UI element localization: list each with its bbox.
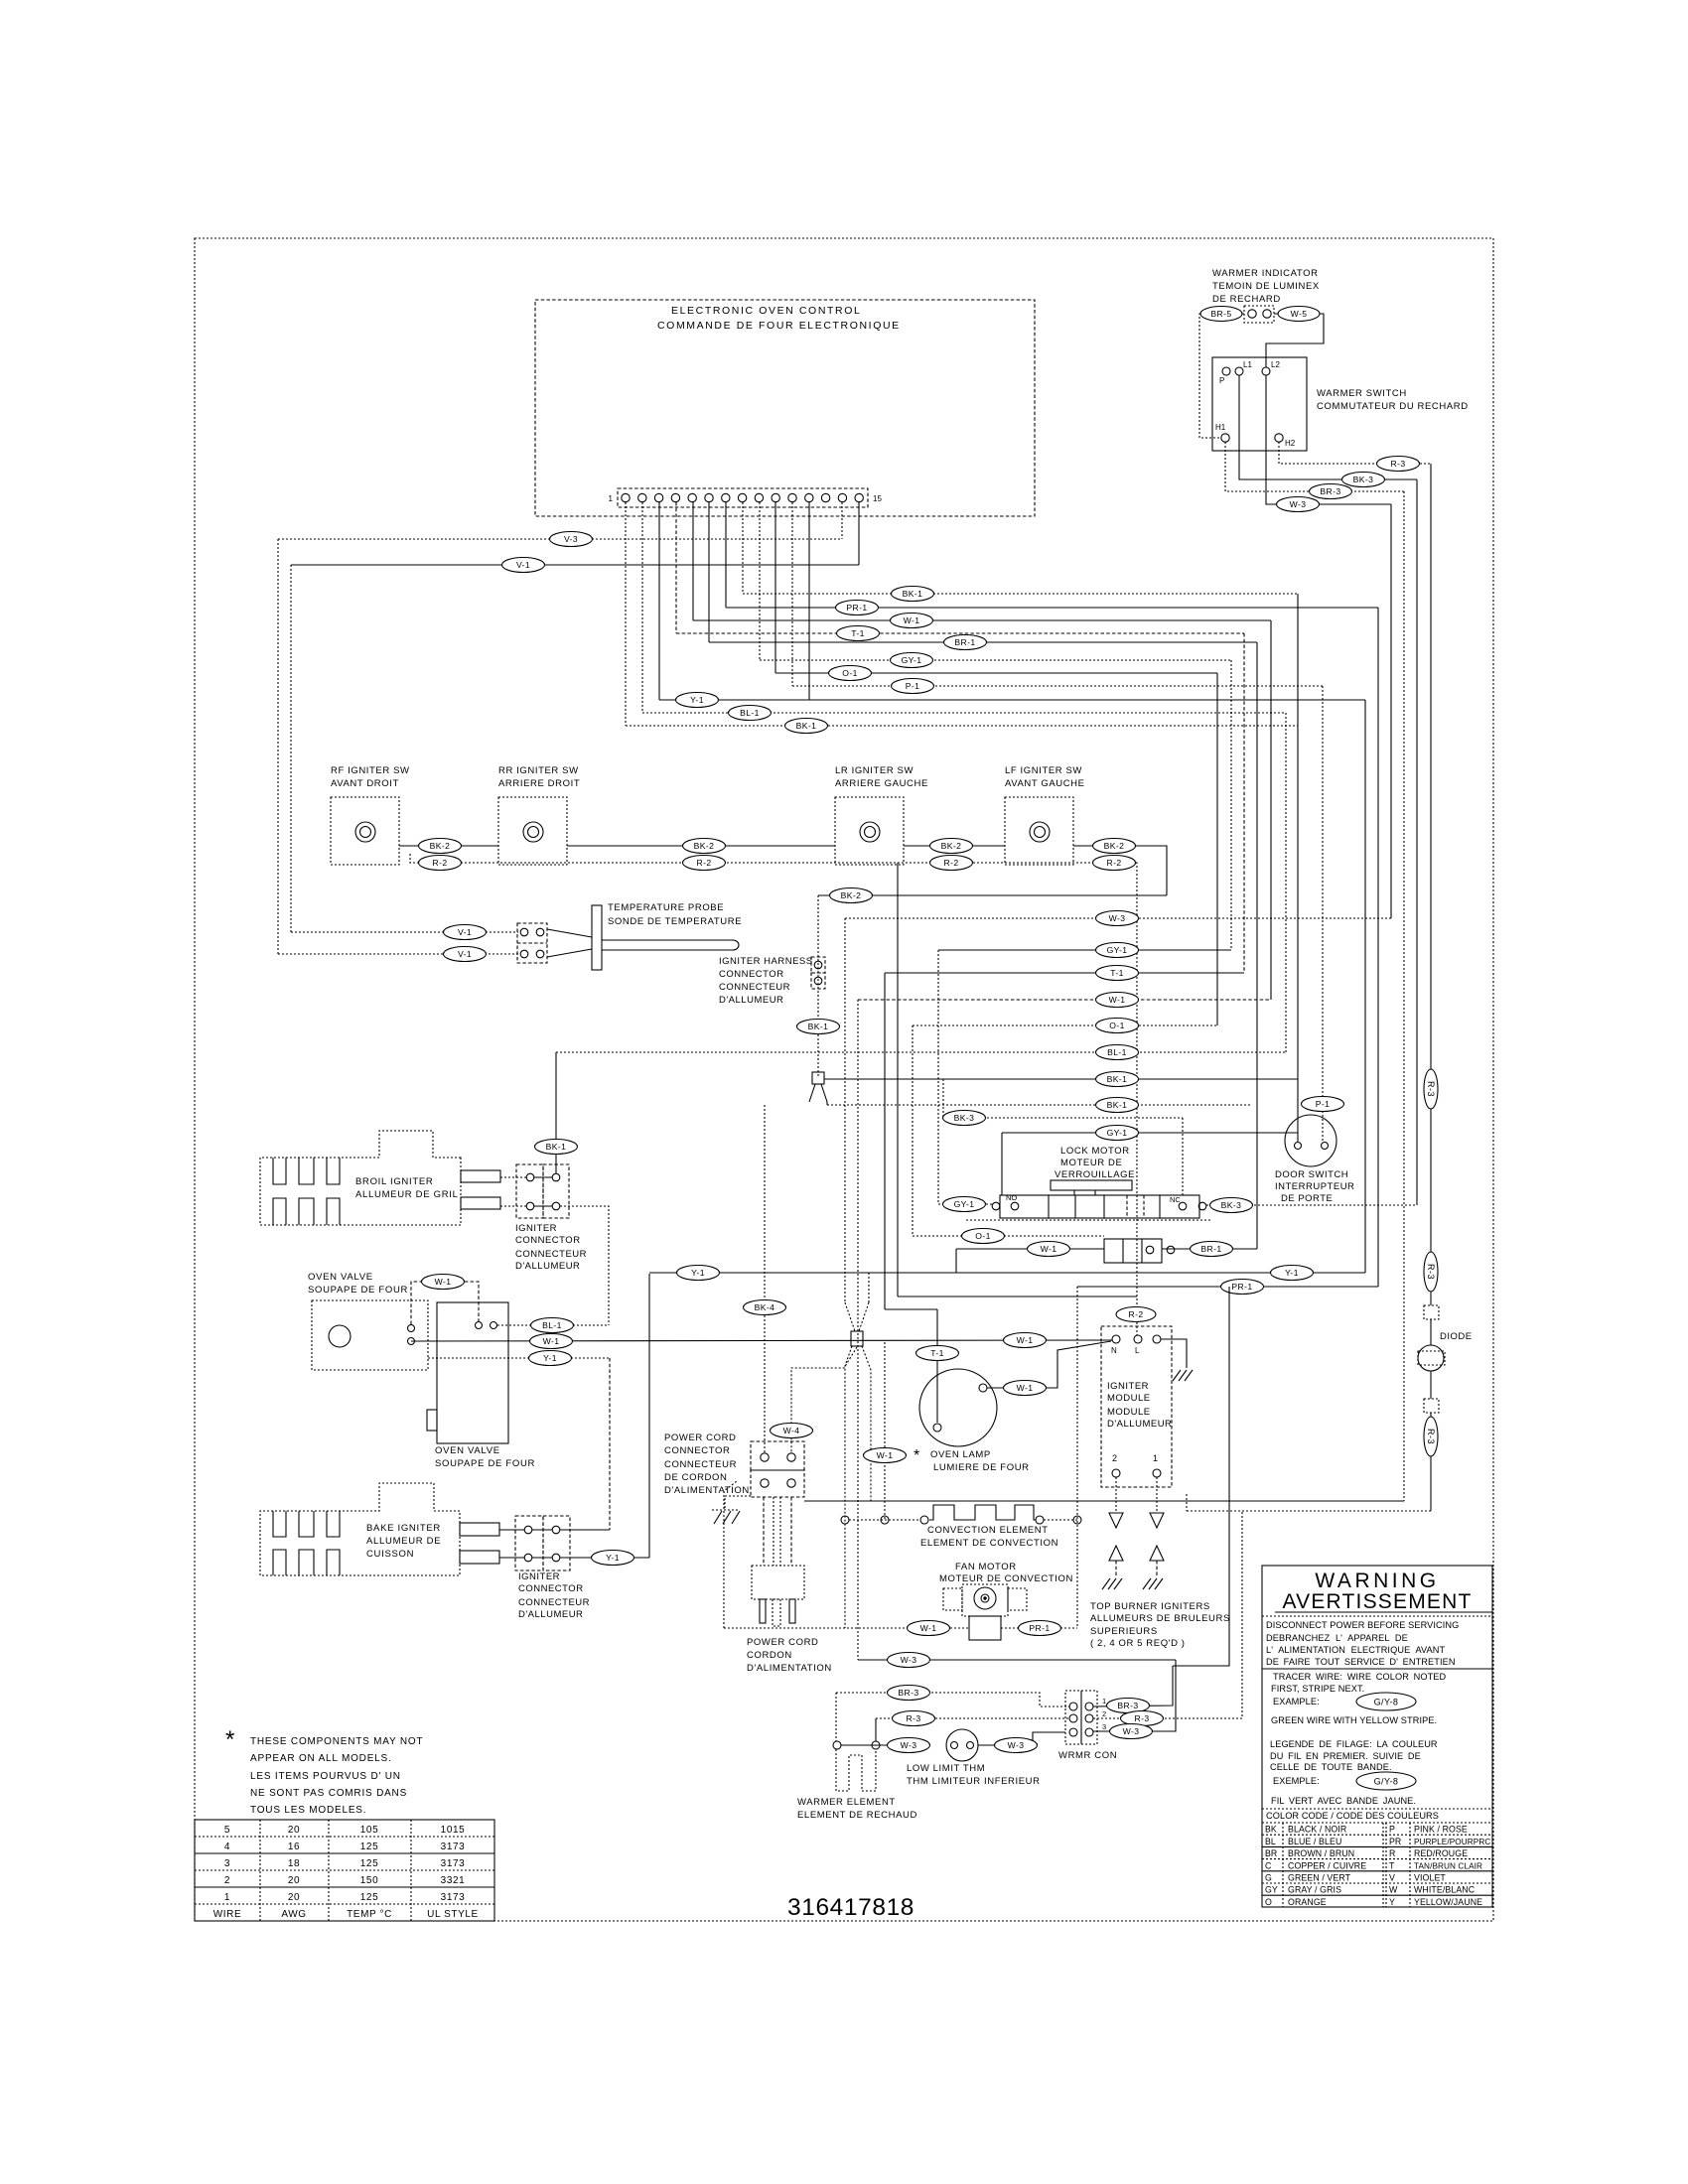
svg-text:D'ALLUMEUR: D'ALLUMEUR	[1107, 1419, 1172, 1430]
svg-text:D'ALLUMEUR: D'ALLUMEUR	[518, 1609, 583, 1620]
svg-text:G: G	[1265, 1873, 1272, 1883]
svg-text:CORDON: CORDON	[747, 1650, 792, 1661]
oval R-3 vertical upper	[1424, 1252, 1438, 1292]
svg-text:COPPER / CUIVRE: COPPER / CUIVRE	[1288, 1860, 1366, 1870]
wire Y-1 from terminal	[659, 502, 1365, 708]
bake igniter tooth upper 2	[299, 1511, 314, 1537]
svg-text:CONNECTEUR: CONNECTEUR	[719, 982, 790, 993]
module pin 1	[1153, 1453, 1161, 1477]
oven valve label lower	[435, 1445, 535, 1469]
svg-text:3: 3	[1102, 1722, 1106, 1731]
svg-text:3: 3	[224, 1858, 230, 1869]
svg-text:16: 16	[288, 1842, 300, 1852]
svg-text:ORANGE: ORANGE	[1288, 1897, 1327, 1907]
svg-text:105: 105	[360, 1825, 379, 1836]
svg-text:L2: L2	[1271, 360, 1280, 369]
svg-text:RF IGNITER SW: RF IGNITER SW	[331, 765, 410, 776]
igniter harness connector	[811, 957, 825, 989]
svg-text:SUPERIEURS: SUPERIEURS	[1090, 1626, 1158, 1637]
svg-text:POWER CORD: POWER CORD	[664, 1433, 737, 1443]
svg-text:D'ALIMENTATION: D'ALIMENTATION	[664, 1485, 750, 1496]
svg-text:DU FIL EN PREMIER. SUIVIE: DU FIL EN PREMIER. SUIVIE DE	[1270, 1751, 1421, 1761]
wire BR-3 stub	[835, 1693, 837, 1741]
svg-text:TEMPERATURE PROBE: TEMPERATURE PROBE	[608, 902, 724, 913]
svg-text:*: *	[225, 1726, 234, 1753]
bake igniter label	[366, 1523, 441, 1560]
svg-text:W-1: W-1	[1017, 1335, 1034, 1345]
wire Y-1 riser	[648, 1274, 650, 1558]
wire R-3 right drop	[1424, 464, 1438, 1252]
asterisk note	[225, 1726, 423, 1816]
svg-text:3173: 3173	[441, 1842, 466, 1852]
junction square upper	[809, 1072, 827, 1105]
svg-text:W-5: W-5	[1291, 309, 1308, 319]
wire GY-1 drop	[937, 950, 939, 1204]
svg-text:BK-2: BK-2	[941, 841, 962, 851]
svg-text:PR-1: PR-1	[846, 603, 867, 613]
wire PR-1 long row	[1077, 1280, 1378, 1295]
wire module ground dotted	[1186, 1494, 1188, 1511]
wire O-1 lock motor row	[913, 1229, 1104, 1244]
wire GY-1 mid row y957	[938, 943, 1231, 958]
wire O-1 drop	[912, 1025, 914, 1236]
svg-text:L: L	[1135, 1346, 1140, 1355]
svg-text:G/Y-8: G/Y-8	[1374, 1777, 1399, 1787]
broil igniter tooth lower 1	[273, 1198, 286, 1225]
pin 3 label	[1102, 1722, 1106, 1731]
wire R-3 bottom left	[876, 1711, 1069, 1726]
svg-text:UL STYLE: UL STYLE	[427, 1909, 479, 1920]
svg-text:DE PORTE: DE PORTE	[1281, 1193, 1333, 1204]
bake igniter prong lower	[460, 1551, 524, 1564]
svg-text:N: N	[1111, 1346, 1117, 1355]
igniter connector bake label	[518, 1571, 590, 1620]
wire O-1 from terminal	[775, 502, 1217, 681]
svg-text:LES ITEMS POURVUS D' UN: LES ITEMS POURVUS D' UN	[250, 1771, 401, 1782]
wire BR-1 from terminal	[709, 502, 1257, 650]
igniter connector broil	[516, 1164, 569, 1218]
svg-text:O: O	[1265, 1897, 1272, 1907]
wire W-3 right	[1093, 1660, 1176, 1739]
wire BK-3 lock motor row	[1206, 1198, 1417, 1213]
wire Y-1 long row	[649, 1266, 1365, 1281]
svg-text:LEGENDE DE FILAGE: LA COULEUR: LEGENDE DE FILAGE: LA COULEUR	[1270, 1739, 1438, 1749]
wire fan W-1 left riser	[724, 1481, 737, 1628]
svg-text:20: 20	[288, 1875, 300, 1886]
wire BR-3 right	[1093, 1666, 1173, 1713]
svg-text:2: 2	[1112, 1453, 1117, 1463]
svg-text:WARMER ELEMENT: WARMER ELEMENT	[797, 1797, 896, 1808]
wire V-3	[278, 502, 842, 547]
wire BR-3 from H1	[1225, 442, 1404, 499]
wire BK-1 from terminal	[743, 502, 1298, 602]
wire W-3 from L2	[1266, 375, 1391, 512]
svg-text:BK-1: BK-1	[1107, 1100, 1128, 1110]
warmer indicator label	[1212, 268, 1320, 305]
svg-text:WARMER INDICATOR: WARMER INDICATOR	[1212, 268, 1319, 279]
svg-text:BR-5: BR-5	[1210, 309, 1231, 319]
example oval 1	[1273, 1693, 1416, 1710]
svg-text:H1: H1	[1215, 423, 1226, 432]
warmer element label	[797, 1797, 917, 1821]
wire T-1 drop	[1243, 633, 1245, 973]
svg-text:PR: PR	[1389, 1837, 1401, 1846]
wire BR-5 to H1	[1199, 314, 1244, 438]
wire T-1 to lamp	[885, 1309, 959, 1423]
wire R-3 diode bottom	[1187, 1456, 1431, 1511]
svg-text:H2: H2	[1285, 439, 1296, 448]
svg-text:BK-4: BK-4	[755, 1302, 775, 1312]
svg-text:BL-1: BL-1	[740, 708, 760, 718]
svg-text:BL-1: BL-1	[1107, 1047, 1127, 1057]
svg-text:DISCONNECT POWER BEFORE SERVIC: DISCONNECT POWER BEFORE SERVICING	[1266, 1620, 1459, 1630]
svg-text:MODULE: MODULE	[1107, 1393, 1151, 1404]
svg-text:W-1: W-1	[1041, 1244, 1057, 1254]
svg-text:ALLUMEUR DE GRIL: ALLUMEUR DE GRIL	[355, 1189, 459, 1200]
svg-text:18: 18	[288, 1858, 300, 1869]
svg-text:LR IGNITER SW: LR IGNITER SW	[835, 765, 914, 776]
svg-text:OVEN VALVE: OVEN VALVE	[308, 1272, 373, 1283]
lock motor terminal NO	[1006, 1193, 1019, 1210]
wire BL-1 drop	[1285, 713, 1287, 1052]
svg-text:125: 125	[360, 1858, 379, 1869]
wire BL-1 from terminal	[642, 502, 1286, 721]
svg-text:3321: 3321	[441, 1875, 466, 1886]
svg-text:20: 20	[288, 1892, 300, 1903]
wire R-3 right	[1093, 1511, 1242, 1726]
electronic oven control box	[535, 300, 1035, 516]
switch LF IGNITER SW	[1005, 765, 1085, 865]
switch RR IGNITER SW	[498, 765, 580, 865]
svg-text:AVANT GAUCHE: AVANT GAUCHE	[1005, 778, 1085, 789]
svg-text:POWER CORD: POWER CORD	[747, 1637, 819, 1648]
border frame	[195, 238, 1493, 1921]
warmer switch box	[1212, 357, 1307, 451]
wire PR-1 fan	[1001, 1621, 1077, 1636]
svg-text:NE SONT PAS COMRIS DANS: NE SONT PAS COMRIS DANS	[250, 1788, 407, 1799]
wire BK-1 mid row y1087	[824, 1072, 1298, 1087]
oven valve tall box	[427, 1302, 508, 1443]
svg-text:BR-1: BR-1	[1200, 1244, 1221, 1254]
svg-text:W-3: W-3	[1123, 1726, 1140, 1736]
svg-text:BK-1: BK-1	[1107, 1074, 1128, 1084]
svg-text:2: 2	[224, 1875, 230, 1886]
terminal L2	[1262, 360, 1280, 375]
wire V-1 to probe upper	[291, 925, 518, 940]
convection element label	[920, 1525, 1058, 1549]
svg-text:W-1: W-1	[435, 1277, 452, 1287]
svg-text:GY-1: GY-1	[1107, 945, 1128, 955]
warmer connector WRMR CON	[1065, 1691, 1097, 1744]
terminal pin 15	[855, 493, 863, 501]
svg-text:FAN MOTOR: FAN MOTOR	[955, 1562, 1017, 1572]
lock motor label	[1055, 1146, 1135, 1180]
svg-text:ARRIERE DROIT: ARRIERE DROIT	[498, 778, 580, 789]
svg-text:P: P	[1219, 376, 1224, 385]
svg-text:( 2, 4 OR 5 REQ'D ): ( 2, 4 OR 5 REQ'D )	[1090, 1638, 1186, 1649]
wire T-1 from terminal	[676, 502, 1244, 641]
probe connector	[517, 923, 547, 963]
warmer element	[836, 1749, 876, 1791]
terminal pin 12	[805, 493, 813, 501]
svg-text:GY: GY	[1265, 1885, 1278, 1895]
wire BK-4	[744, 1105, 786, 1452]
diode body	[1418, 1319, 1445, 1371]
wire BK-3 upper dotted row	[943, 1079, 1184, 1195]
svg-text:CONVECTION ELEMENT: CONVECTION ELEMENT	[927, 1525, 1049, 1536]
lock motor terminal right	[1198, 1202, 1206, 1210]
terminal P	[1219, 367, 1230, 385]
junction lower right leg	[862, 1346, 871, 1501]
svg-text:BL-1: BL-1	[542, 1320, 562, 1330]
svg-text:PR-1: PR-1	[1029, 1623, 1050, 1633]
svg-text:V-1: V-1	[516, 560, 530, 570]
door switch label	[1275, 1169, 1354, 1204]
igniter connector broil label	[515, 1223, 587, 1272]
wire W-5 to L2	[1266, 314, 1324, 367]
svg-text:W-3: W-3	[901, 1655, 917, 1665]
svg-text:VIOLET: VIOLET	[1414, 1873, 1446, 1883]
svg-text:W-1: W-1	[920, 1623, 937, 1633]
svg-text:AWG: AWG	[281, 1909, 306, 1920]
svg-text:BK-1: BK-1	[796, 721, 817, 731]
svg-text:EXEMPLE:: EXEMPLE:	[1273, 1776, 1320, 1786]
terminal pin 2	[638, 493, 646, 501]
svg-text:1: 1	[1153, 1453, 1158, 1463]
svg-text:15: 15	[873, 494, 882, 503]
color code header	[1262, 1811, 1492, 1823]
igniter harness connector label	[719, 956, 813, 1006]
wire BR-3 bottom left	[836, 1686, 1069, 1707]
svg-text:WIRE: WIRE	[213, 1909, 242, 1920]
wire BK-2 vertical	[797, 895, 840, 1078]
oval BR-5	[1200, 307, 1242, 322]
broil igniter tooth upper 2	[299, 1158, 314, 1184]
svg-text:G/Y-8: G/Y-8	[1374, 1698, 1399, 1707]
junction crossover	[845, 1273, 869, 1346]
igniter module label	[1107, 1381, 1172, 1430]
terminal pin 11	[788, 493, 796, 501]
module terminal G	[1153, 1335, 1161, 1343]
lock motor body	[966, 1180, 1211, 1220]
svg-text:ARRIERE GAUCHE: ARRIERE GAUCHE	[835, 778, 928, 789]
wire BK-3 right drop	[1416, 479, 1418, 1205]
svg-text:BK-1: BK-1	[546, 1142, 567, 1152]
wire BK-2 seg2	[567, 839, 835, 854]
wire W-3 right drop	[1390, 504, 1392, 918]
svg-text:Y-1: Y-1	[691, 1268, 705, 1278]
top burner igniters label	[1090, 1601, 1230, 1649]
wire BR-1 lower block	[1162, 1242, 1257, 1257]
svg-text:BK-2: BK-2	[1104, 841, 1125, 851]
fan motor label	[939, 1562, 1073, 1584]
svg-text:Y-1: Y-1	[1285, 1268, 1299, 1278]
svg-text:BROWN / BRUN: BROWN / BRUN	[1288, 1848, 1354, 1858]
fil vert text	[1271, 1796, 1416, 1806]
svg-text:BK-3: BK-3	[1353, 475, 1374, 484]
wire BK-1 mid row y1113	[827, 1098, 1251, 1113]
wire W-1 lower block	[956, 1242, 1104, 1274]
wire W-3 to wrmr con	[978, 1732, 1065, 1753]
svg-text:ELEMENT DE CONVECTION: ELEMENT DE CONVECTION	[920, 1538, 1058, 1549]
svg-text:R-3: R-3	[1134, 1713, 1149, 1723]
terminal pin 1	[622, 493, 630, 501]
svg-text:Y-1: Y-1	[690, 695, 704, 705]
svg-text:3173: 3173	[441, 1892, 466, 1903]
wire BR-1 drop	[1256, 642, 1258, 1249]
color code table	[1262, 1823, 1492, 1907]
pin 1 label	[1102, 1697, 1106, 1706]
svg-text:PINK / ROSE: PINK / ROSE	[1414, 1825, 1468, 1835]
svg-text:FIRST, STRIPE NEXT.: FIRST, STRIPE NEXT.	[1271, 1684, 1364, 1694]
svg-text:1: 1	[224, 1892, 230, 1903]
svg-text:NC: NC	[1170, 1195, 1181, 1204]
svg-text:RR IGNITER SW: RR IGNITER SW	[498, 765, 579, 776]
svg-text:W-1: W-1	[1017, 1383, 1034, 1393]
wire V-1 left drop	[290, 565, 292, 932]
svg-text:W-3: W-3	[1109, 913, 1126, 923]
oven valve label upper	[308, 1272, 408, 1296]
wire W-3 drop to junction	[844, 918, 846, 1302]
svg-text:T-1: T-1	[851, 628, 865, 638]
svg-text:BL: BL	[1265, 1837, 1276, 1846]
broil igniter tooth lower 3	[327, 1198, 340, 1225]
svg-text:OVEN VALVE: OVEN VALVE	[435, 1445, 500, 1456]
svg-text:O-1: O-1	[975, 1231, 991, 1241]
broil igniter prong upper	[461, 1170, 526, 1182]
wire P-1 drop	[1302, 686, 1344, 1142]
svg-text:Y-1: Y-1	[543, 1353, 557, 1363]
terminal pin 10	[772, 493, 779, 501]
module terminal N	[1111, 1335, 1120, 1355]
temperature probe body	[547, 905, 739, 970]
svg-text:L1: L1	[1243, 360, 1252, 369]
svg-text:125: 125	[360, 1892, 379, 1903]
oval W-5	[1278, 307, 1320, 322]
svg-text:BR: BR	[1265, 1848, 1277, 1858]
convection element	[841, 1505, 1081, 1524]
wire power cord leads	[764, 1497, 791, 1566]
low limit thermostat	[946, 1729, 978, 1761]
warning box title	[1262, 1566, 1492, 1907]
svg-text:BK-3: BK-3	[1221, 1200, 1242, 1210]
wire Y-1 drop	[1364, 700, 1366, 1273]
svg-text:CONNECTOR: CONNECTOR	[719, 969, 784, 980]
color code divider	[1262, 1808, 1492, 1810]
wire R-2 run	[410, 854, 1156, 1335]
wire GY-1 long row	[1002, 1126, 1298, 1196]
diode label	[1440, 1331, 1473, 1342]
switch RF IGNITER SW	[331, 765, 410, 865]
svg-text:R-3: R-3	[1426, 1429, 1436, 1444]
svg-text:D'ALIMENTATION: D'ALIMENTATION	[747, 1663, 832, 1674]
svg-text:APPEAR ON ALL MODELS.: APPEAR ON ALL MODELS.	[250, 1753, 392, 1764]
igniter connector bake	[515, 1516, 570, 1570]
terminal pin 6	[705, 493, 713, 501]
wire ground run long	[804, 1500, 1404, 1502]
wire module ground	[1161, 1339, 1193, 1381]
svg-text:SONDE DE TEMPERATURE: SONDE DE TEMPERATURE	[608, 916, 742, 927]
broil igniter prong lower	[461, 1197, 526, 1209]
svg-text:CONNECTEUR: CONNECTEUR	[518, 1597, 590, 1608]
wire W-1 drop	[1270, 620, 1272, 1000]
oven lamp	[919, 1369, 997, 1446]
wire W-1 mid row y1007	[858, 993, 1271, 1008]
svg-text:CELLE DE TOUTE BANDE.: CELLE DE TOUTE BANDE.	[1270, 1762, 1392, 1772]
svg-text:FIL VERT AVEC BANDE JAUNE.: FIL VERT AVEC BANDE JAUNE.	[1271, 1796, 1416, 1806]
svg-text:W-3: W-3	[1290, 499, 1307, 509]
WRMR CON label	[1058, 1750, 1117, 1761]
terminal pin 13	[821, 493, 829, 501]
svg-text:DE RECHARD: DE RECHARD	[1212, 294, 1281, 305]
svg-text:R-2: R-2	[1106, 858, 1121, 868]
svg-text:BLUE / BLEU: BLUE / BLEU	[1288, 1837, 1341, 1846]
svg-text:125: 125	[360, 1842, 379, 1852]
wire R-3 stub	[875, 1718, 877, 1741]
svg-text:O-1: O-1	[842, 668, 858, 678]
wire Y-1 drop to bake connector	[609, 1358, 611, 1530]
svg-text:GY-1: GY-1	[954, 1199, 975, 1209]
wire BK-2 horizontal	[818, 888, 1167, 903]
diode connector lower	[1424, 1371, 1439, 1413]
wire stub terminal 12	[808, 502, 810, 700]
power cord plug	[752, 1566, 804, 1626]
svg-text:LF IGNITER SW: LF IGNITER SW	[1005, 765, 1082, 776]
svg-text:W-3: W-3	[901, 1740, 917, 1750]
svg-text:LOW LIMIT THM: LOW LIMIT THM	[907, 1763, 985, 1774]
svg-text:Y-1: Y-1	[606, 1553, 620, 1563]
svg-text:R-3: R-3	[1426, 1264, 1436, 1280]
power cord label	[747, 1637, 832, 1674]
fan motor	[943, 1584, 1027, 1640]
bake igniter body	[260, 1483, 460, 1575]
svg-text:THESE COMPONENTS MAY NOT: THESE COMPONENTS MAY NOT	[250, 1736, 423, 1747]
svg-text:W-1: W-1	[543, 1336, 560, 1346]
svg-text:CUISSON: CUISSON	[366, 1549, 414, 1560]
wire BK-2 seg1	[399, 839, 498, 854]
terminal pin 9	[755, 493, 763, 501]
svg-text:O-1: O-1	[1109, 1021, 1125, 1030]
svg-text:PURPLE/POURPRC: PURPLE/POURPRC	[1414, 1838, 1490, 1846]
wire O-1 drop	[1216, 673, 1218, 1025]
exemple oval 2	[1273, 1772, 1416, 1790]
svg-text:INTERRUPTEUR: INTERRUPTEUR	[1275, 1181, 1354, 1192]
svg-text:PR-1: PR-1	[1231, 1282, 1252, 1292]
svg-text:*: *	[914, 1447, 919, 1464]
wire V-1 to probe lower	[278, 947, 518, 962]
svg-text:CONNECTOR: CONNECTOR	[515, 1235, 581, 1246]
svg-text:AVANT DROIT: AVANT DROIT	[331, 778, 399, 789]
svg-text:CONNECTEUR: CONNECTEUR	[515, 1249, 587, 1260]
svg-text:WHITE/BLANC: WHITE/BLANC	[1414, 1885, 1476, 1895]
svg-text:20: 20	[288, 1825, 300, 1836]
svg-text:DIODE: DIODE	[1440, 1331, 1473, 1342]
wire V-3 left drop	[277, 539, 279, 954]
terminal pin 4	[671, 493, 679, 501]
module pin 2	[1112, 1453, 1120, 1477]
svg-text:T-1: T-1	[1110, 968, 1124, 978]
svg-text:BR-3: BR-3	[898, 1688, 918, 1698]
diode connector upper	[1424, 1292, 1439, 1319]
wire PR-1 from terminal	[726, 502, 1378, 615]
svg-text:WARNING: WARNING	[1315, 1570, 1439, 1592]
wire Y-1 bake	[560, 1551, 649, 1566]
svg-text:COMMUTATEUR DU RECHARD: COMMUTATEUR DU RECHARD	[1317, 401, 1469, 412]
svg-text:V-3: V-3	[564, 534, 578, 544]
svg-text:P: P	[1389, 1825, 1395, 1835]
svg-text:BLACK / NOIR: BLACK / NOIR	[1288, 1825, 1346, 1835]
igniter module box	[1101, 1326, 1172, 1487]
